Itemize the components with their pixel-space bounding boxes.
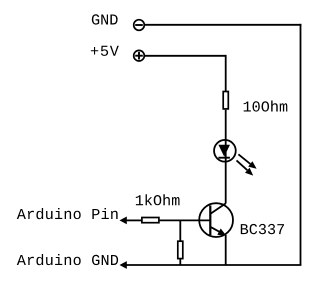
wire +5V corner down to R1 [225,55,227,92]
wire junction down to R3 [179,220,181,241]
arrowhead Arduino Pin (points left) [120,217,127,225]
value label 1kOhm [136,194,180,205]
LED D1 cathode bar [218,157,230,159]
resistor R3 (pulldown, vertical) [178,241,183,258]
part label BC337 [241,224,284,234]
wire GND top horizontal [144,24,301,26]
wire +5V horizontal [144,55,225,57]
transistor Q1 emitter arrowhead [217,229,226,236]
transistor Q1 circle [199,203,233,237]
transistor Q1 emitter diagonal [210,227,219,232]
wire R1 through LED down to collector junction [225,110,227,204]
LED light arrow 2 [237,160,254,175]
node +5V label [91,46,119,56]
terminal +5V (circle with plus) [134,50,145,61]
wire bottom GND rail [126,264,301,266]
wire emitter down to GND rail [225,235,227,265]
node label Arduino GND [17,254,118,265]
resistor R2 (1kOhm, horizontal) [142,218,159,223]
transistor Q1 base bar [209,206,211,236]
arrowhead Arduino GND (points left) [120,261,127,269]
transistor Q1 collector diagonal [210,203,225,214]
wire right vertical rail [300,24,302,265]
node GND label [92,14,118,24]
resistor R1 (10 Ohm, vertical) [223,92,228,109]
terminal GND (circle with minus) [134,20,145,31]
node label Arduino Pin [17,208,118,219]
wire R3 to GND rail [179,259,181,265]
LED D1 anode triangle [218,145,230,157]
LED light arrow 1 [238,154,256,169]
value label 10Ohm [244,101,288,112]
wire pin arrow to R2 [126,219,142,221]
LED D1 circle [214,140,236,162]
wire R2 to base bar [160,219,211,221]
